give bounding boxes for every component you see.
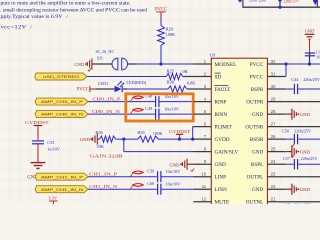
power port PVCC (top) [155,7,167,18]
net label CH0_IN_P [92,96,121,101]
pin 10 LINP (U9) [194,172,227,181]
erc marker (C57) [291,155,294,158]
svg-text:AMP_CH0_IN_N: AMP_CH0_IN_N [41,112,83,117]
note text block [0,0,147,31]
pin 5 RINN (U9) [194,109,228,118]
svg-text:CH1_IN_P: CH1_IN_P [89,171,118,176]
svg-text:RINP: RINP [215,100,227,106]
svg-text:GND: GND [300,149,311,154]
svg-text:LED3: LED3 [98,81,109,86]
net label CH1_IN_N [89,184,117,189]
svg-text:C53: C53 [47,140,54,145]
svg-text:CH0_IN_N: CH0_IN_N [92,109,120,114]
power port GVDDST (at U9) [169,129,190,139]
pin 12 MUTE (U9) [194,197,230,206]
svg-text:26: 26 [271,134,276,139]
wire CH1_IN_N [88,188,194,190]
pin 22 GND (U9) [252,184,286,193]
svg-text:pply.Typical value is 6.9V: pply.Typical value is 6.9V [1,14,63,20]
svg-text:OUTNL: OUTNL [246,200,264,204]
op-amp U9 body [210,53,268,209]
svg-text:GND: GND [300,187,311,192]
wire PVCC rail (pin 32) [286,63,320,65]
svg-text:11: 11 [202,184,207,189]
junction PVCC rail [284,62,287,65]
wire PVCC to LED3 [96,88,115,90]
wire R36 to R35 [116,138,139,140]
svg-text:SJ_2S_NC: SJ_2S_NC [96,49,115,54]
svg-text:GND: GND [74,62,85,67]
svg-text:AMP_CH0_IN_P: AMP_CH0_IN_P [41,99,83,104]
pin 7 GVDD (U9) [194,134,230,143]
svg-text:R30: R30 [167,79,175,84]
svg-text:C59: C59 [147,169,154,174]
svg-text:GVDDST: GVDDST [25,120,49,125]
svg-text:GND: GND [80,137,91,142]
node cap stubs (clipped) [238,0,318,5]
svg-text:25: 25 [271,146,276,151]
resistor R25 [166,68,187,79]
erc marker (CH1_IN_P) [191,169,194,172]
capacitor C59 [147,169,180,183]
net label CH1_IN_P [89,171,118,176]
diff-pair marker (CH1_IN_P) [130,171,143,177]
svg-text:10u/10V: 10u/10V [164,106,179,111]
pin 3 FAULT (U9) [194,84,232,93]
svg-text:1u/10V: 1u/10V [47,147,60,152]
svg-text:32: 32 [271,59,276,64]
pin 26 BSNR (U9) [250,134,286,143]
svg-text:PVCC: PVCC [250,62,264,68]
svg-text:30: 30 [271,84,276,89]
ground (pin 25) [286,146,310,157]
net label CH0_IN_N [92,109,120,114]
pin 11 LINN (U9) [194,184,228,193]
power port GVDDST (left) [25,120,49,140]
svg-text:100K: 100K [153,131,164,136]
svg-text:R35: R35 [137,130,145,135]
svg-text:27: 27 [271,121,276,126]
svg-text:CH1_IN_N: CH1_IN_N [89,184,117,189]
pin 30 BSPR (U9) [251,84,286,93]
svg-text:10u/10V: 10u/10V [166,169,181,174]
junction R29/MODSEL [159,62,162,65]
capacitor C50 [282,128,320,144]
wire OUTPL (pin 23) [286,176,320,178]
svg-text:12: 12 [201,197,206,202]
svg-text:R29: R29 [166,26,174,31]
svg-text:220n/25V: 220n/25V [294,203,311,204]
wire SJ1 to MODSEL pin [128,63,194,65]
pin 8 GAIN/SLV (U9) [194,146,239,155]
pin 29 OUTPR (U9) [246,96,285,105]
net label GAIN:32dB [90,153,123,158]
resistor R35 [137,130,163,142]
erc marker (C50) [291,144,294,147]
wire PLIMIT elbow [192,127,194,140]
pin 23 OUTPL (U9) [247,172,286,181]
svg-text:AMP_CH1_IN_N: AMP_CH1_IN_N [41,187,83,192]
resistor R36 [95,130,115,149]
svg-text:10: 10 [316,55,320,59]
capacitor C49 [145,106,179,120]
wire CH0_IN_N [88,113,194,115]
erc marker (port uSD) [88,68,91,71]
svg-text:SD: SD [215,74,222,80]
svg-text:6.8K: 6.8K [187,80,196,85]
svg-text:GND: GND [215,162,226,168]
resistor R30 [167,79,196,92]
port uSD_STEREO [35,73,87,80]
capacitor C44 [286,77,320,94]
port AMP_CH0_IN_N [35,111,88,118]
LED D_LED3 [98,80,147,92]
pin 25 GND (U9) [252,146,286,155]
capacitor C57 [283,156,320,169]
resistor R29 [158,26,177,46]
wire R30 to FAULT pin [187,88,194,90]
pin 28 GND (U9) [252,109,286,118]
svg-text:PLIMIT: PLIMIT [215,125,233,131]
diff-pair marker (CH0_IN_N) [130,108,143,114]
junction decoupling cap [308,62,311,65]
ground (pin 9) [170,159,194,170]
wire CH1_IN_P [88,176,194,178]
ground (C53) [27,163,45,181]
svg-text:GVDDST: GVDDST [169,129,190,134]
svg-text:100K: 100K [166,32,177,37]
wire gain tap to GAIN/SLV pin [124,139,194,152]
svg-text:PVCC: PVCC [250,74,264,80]
svg-text:28: 28 [271,109,276,114]
wire uSD_STEREO to R25 [87,76,166,78]
svg-text:GVDD: GVDD [215,137,230,143]
svg-text:3.3V: 3.3V [48,195,58,200]
svg-text:C60: C60 [147,181,154,186]
svg-text:BSPL: BSPL [251,162,263,168]
svg-text:U9: U9 [210,53,216,58]
wire LED3 to R30 [123,88,168,90]
ground (SJ1) [74,59,92,70]
port AMP_CH1_IN_P [35,173,88,180]
junction bus [278,6,281,9]
ground (pin 28) [286,109,310,120]
svg-text:GND: GND [252,112,263,118]
pin 27 OUTNR (U9) [245,121,285,130]
solder jumper SJ1 (SJ_2S_NC) [96,49,128,70]
wire R25 to SD pin [183,76,194,78]
svg-text:FAULT: FAULT [215,87,232,93]
node decoupling cap (top right) [305,28,320,64]
pin 6 PLIMIT (U9) [193,121,233,130]
svg-text:10u/10V: 10u/10V [166,181,181,186]
ground (pin 22) [286,184,310,195]
wire OUTNL (pin 21) [286,201,320,203]
svg-text:GND: GND [170,162,181,167]
pin 2 SD (U9) [194,71,222,80]
svg-text:LED(RED): LED(RED) [126,80,146,85]
svg-text:uSD_STEREO: uSD_STEREO [43,74,79,79]
svg-text:GND: GND [305,28,315,33]
wire R35 to GVDD pin [158,138,194,140]
svg-text:MUTE: MUTE [215,200,230,204]
pin 1 MODSEL (U9) [194,59,237,68]
pin 31 PVCC (U9) [250,71,286,80]
wire CH0_IN_P [88,101,194,103]
wire PVCC feed (vertical) [285,64,287,77]
svg-text:GND: GND [252,150,263,156]
svg-text:vcc=12V: vcc=12V [1,25,27,31]
svg-text:31: 31 [271,71,276,76]
svg-text:OUTPR: OUTPR [246,100,264,106]
wire GND to SJ1 [93,63,113,65]
svg-text:21: 21 [271,197,276,202]
svg-text:220n/25V: 220n/25V [303,77,320,82]
svg-text:AMP_CH1_IN_P: AMP_CH1_IN_P [41,174,83,179]
svg-text:24: 24 [271,159,276,164]
svg-text:0R: 0R [182,69,187,74]
svg-text:LINP: LINP [215,175,227,181]
svg-text:C49: C49 [145,106,152,111]
svg-text:LINN: LINN [215,187,228,193]
pin 21 OUTNL (U9) [246,197,286,206]
svg-text:39K: 39K [96,144,104,149]
wire PVCC to R29 [160,18,162,26]
svg-text:GND: GND [300,112,311,117]
svg-text:OUTPL: OUTPL [247,175,264,181]
port AMP_CH0_IN_P [35,98,88,105]
capacitor C48 [145,94,179,108]
pin 32 PVCC (U9) [250,59,286,68]
diff-pair marker (CH1_IN_N) [130,184,143,190]
port AMP_CH1_IN_N [35,186,88,193]
svg-text:C50: C50 [282,128,289,133]
svg-text:220n/25V: 220n/25V [283,0,299,3]
svg-text:OUTNR: OUTNR [245,125,263,131]
svg-text:SJ1: SJ1 [97,56,103,61]
junction PLIMIT/GVDD [191,138,194,141]
svg-text:C4: C4 [316,51,320,55]
svg-text:puts to mute and the amplifier: puts to mute and the amplifier to enter … [1,0,131,7]
svg-text:R25: R25 [167,68,175,73]
svg-text:C57: C57 [283,156,290,161]
svg-text:GAIN/SLV: GAIN/SLV [215,150,239,156]
diff-pair marker (CH0_IN_P) [130,96,143,102]
wire OUTNR (pin 27) [286,126,320,128]
junction GVDDST [178,138,181,141]
wire C53 to GND [37,144,39,163]
capacitor C53 [32,140,60,151]
svg-text:220n/25V: 220n/25V [301,156,318,161]
wire OUTPR (pin 29) [286,101,320,103]
svg-text:R36: R36 [95,130,103,135]
svg-text:220n/25V: 220n/25V [294,128,311,133]
power port PVCC (LED3) [77,86,96,93]
svg-text:BSPR: BSPR [251,87,264,93]
svg-text:BSNR: BSNR [250,137,264,143]
svg-text:CH0_IN_P: CH0_IN_P [92,96,121,101]
blanket box (input caps) [126,94,193,121]
pin 4 RINP (U9) [194,96,227,105]
svg-text:GAIN:32dB: GAIN:32dB [90,153,123,158]
wire R29 to MODSEL net [160,46,162,65]
svg-text:GND: GND [252,187,263,193]
svg-text:C45: C45 [283,203,290,204]
pin 24 BSPL (U9) [251,159,286,168]
svg-text:PVCC: PVCC [77,87,89,92]
svg-text:23: 23 [271,172,276,177]
capacitor C45 (clipped) [283,203,311,208]
svg-text:RINN: RINN [215,112,228,118]
svg-text:MODSEL: MODSEL [215,62,237,68]
svg-text:. small decoupling resistor be: . small decoupling resistor between AVCC… [0,8,147,14]
svg-text:C44: C44 [291,77,299,82]
svg-text:29: 29 [271,96,276,101]
svg-text:22: 22 [271,184,276,189]
capacitor C60 [147,181,180,195]
pin 9 GND (U9) [194,159,226,168]
svg-text:10: 10 [201,172,206,177]
wire AVCC bus (top) [242,0,320,7]
ground (R36) [80,134,98,145]
junction gain divider [122,138,125,141]
svg-text:220n 220n: 220n 220n [249,0,266,2]
power port 3.3V [48,195,58,204]
